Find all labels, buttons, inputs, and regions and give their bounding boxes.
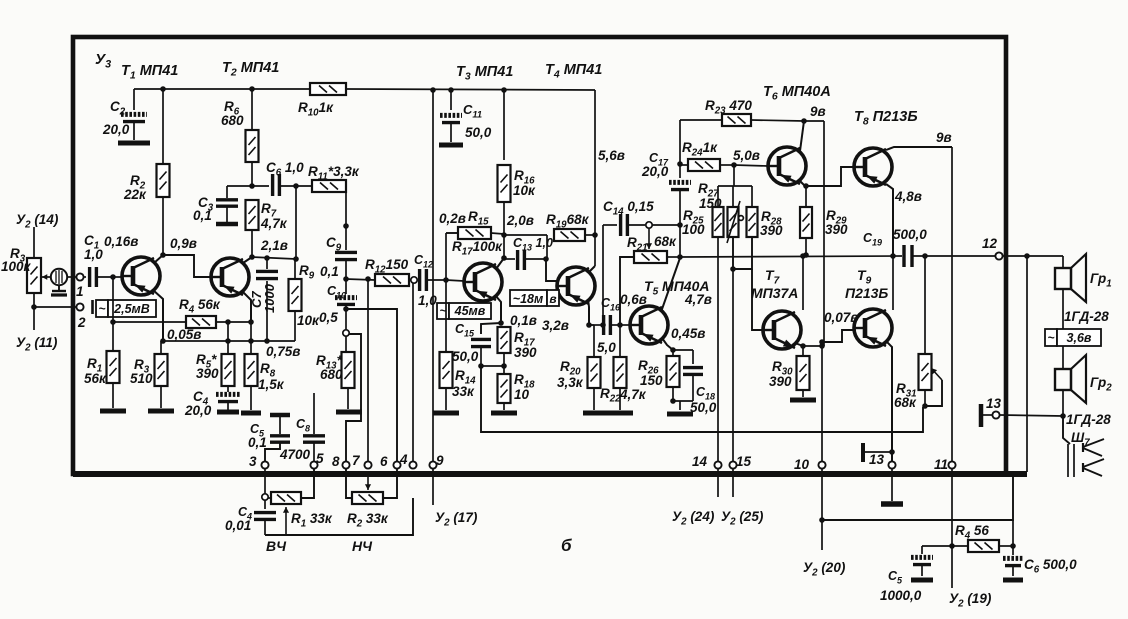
capacitor C2 (133, 89, 135, 110)
transistor T8 P213B (854, 148, 892, 186)
svg-text:У2 (17): У2 (17) (435, 510, 478, 529)
potentiometer R21 (634, 251, 667, 263)
wire T5 collector (661, 258, 680, 312)
svg-text:68к: 68к (654, 234, 677, 249)
node C13 right (543, 256, 549, 262)
wire node to C13 (504, 234, 547, 236)
svg-text:С10: С10 (327, 284, 346, 301)
svg-text:С6 500,0: С6 500,0 (1024, 557, 1077, 576)
svg-text:~: ~ (1047, 331, 1054, 345)
node T1 base (110, 274, 116, 280)
wire Gr2 bottom (1062, 390, 1064, 416)
bias bank top bus (718, 185, 752, 187)
svg-text:0,5: 0,5 (319, 310, 338, 325)
svg-text:0,45в: 0,45в (671, 326, 705, 341)
speaker return wire (1026, 256, 1028, 472)
terminal 13 right (992, 411, 999, 418)
capacitor C10 (345, 279, 347, 294)
wire terminal 4 riser (412, 283, 414, 461)
svg-text:R1968к: R1968к (546, 212, 590, 231)
svg-text:У3: У3 (95, 51, 111, 71)
speaker Gr1 (1062, 256, 1064, 268)
svg-text:4700: 4700 (279, 447, 311, 462)
svg-text:14: 14 (692, 454, 708, 469)
resistor R5* (227, 322, 229, 354)
svg-text:Т2 МП41: Т2 МП41 (222, 60, 279, 79)
wire to T5 base (620, 324, 630, 326)
svg-text:в: в (549, 292, 556, 306)
svg-text:680: 680 (221, 113, 244, 128)
svg-text:0,1: 0,1 (193, 208, 212, 223)
resistor R14 33k (445, 280, 447, 352)
node R19 right (592, 232, 598, 238)
wire T2 collector line (252, 257, 296, 259)
resistor R22 (619, 325, 621, 345)
chassis bar 13 inside (861, 443, 865, 462)
node emitter bus T1 (160, 338, 166, 344)
svg-text:Т6 МП40А: Т6 МП40А (763, 84, 831, 103)
capacitor C9 (335, 251, 357, 254)
svg-text:0,2в: 0,2в (439, 211, 466, 226)
svg-text:13: 13 (869, 452, 885, 467)
wire T6 emitter to T8 base (805, 167, 854, 186)
wire T6 collector (800, 121, 804, 151)
wire mic to terminal 1 (67, 276, 77, 278)
wire T9 collector (892, 256, 894, 310)
wire R3 bottom to Y2(11) (33, 293, 35, 330)
transistor T9 P213B (854, 309, 892, 347)
wire terminal 14 stub (717, 469, 719, 497)
node rail C11 (448, 87, 454, 93)
wire T3 collector (496, 258, 504, 269)
bottom bus thick edge (73, 471, 1027, 477)
tap circle R12-C12 (409, 279, 411, 281)
potentiometer R31 68k (924, 256, 926, 354)
capacitor C5 1000,0 (921, 546, 923, 554)
wire top rail right (346, 89, 595, 90)
svg-text:390: 390 (514, 345, 537, 360)
node R4 right (1010, 543, 1016, 549)
node R24 right (731, 162, 737, 168)
svg-text:1ГД-28: 1ГД-28 (1064, 309, 1109, 324)
node R27-R28 bottoms (733, 237, 752, 269)
node T6 collector (801, 118, 807, 124)
svg-text:0,6в: 0,6в (620, 292, 647, 307)
resistor R8 (250, 322, 252, 354)
wire T9 emitter to terminal 13 (886, 341, 892, 461)
svg-text:У2 (14): У2 (14) (16, 212, 59, 231)
node R24 left (677, 161, 683, 167)
transistor T4 (557, 267, 595, 305)
svg-text:0,1в: 0,1в (510, 313, 537, 328)
svg-text:С11: С11 (463, 102, 482, 120)
svg-text:С15: С15 (455, 322, 475, 339)
wire terminal 13 to speakers (1000, 415, 1063, 416)
svg-text:4: 4 (399, 452, 408, 467)
wire output to speakers (1002, 255, 1063, 257)
wire top rail left (134, 88, 310, 90)
transistor T3 (464, 263, 502, 301)
svg-text:Т7: Т7 (765, 267, 780, 287)
svg-text:0,16в: 0,16в (104, 234, 138, 249)
svg-text:Т1 МП41: Т1 МП41 (121, 63, 178, 82)
svg-text:510: 510 (130, 371, 153, 386)
node R29 bottom rail (803, 252, 809, 258)
svg-text:С5: С5 (888, 569, 903, 586)
node C18 bottom (670, 398, 676, 404)
capacitor C17 (679, 164, 681, 178)
resistor R15 (446, 232, 458, 234)
fork plug upper (1082, 443, 1084, 452)
svg-text:С12: С12 (414, 253, 433, 270)
enclosure box У3 (73, 37, 1006, 474)
wire T1 emitter (153, 290, 163, 341)
R21 wiper arrow (648, 228, 650, 249)
capacitor C5 0,1 (270, 413, 290, 418)
wire R24 to T6 base (734, 165, 768, 166)
supply rail to x824 (804, 120, 824, 122)
svg-text:1000,0: 1000,0 (880, 588, 922, 603)
svg-text:10к: 10к (513, 183, 536, 198)
svg-text:9в: 9в (810, 104, 826, 119)
svg-text:0,9в: 0,9в (170, 236, 197, 251)
capacitor C6 (252, 185, 269, 187)
wire terminal 9 stub (432, 469, 434, 505)
svg-text:0,01: 0,01 (225, 518, 251, 533)
resistor R4 56 (922, 545, 968, 547)
svg-text:2,5мВ: 2,5мВ (113, 302, 150, 316)
capacitor C16 (602, 315, 605, 335)
wire T8 emitter (886, 184, 893, 256)
svg-text:4,7к: 4,7к (260, 216, 288, 231)
terminal 5 (310, 461, 317, 468)
wire Gr1 to Gr2 (1062, 289, 1064, 369)
mid output rail (680, 256, 902, 257)
resistor R4 56k (113, 321, 186, 323)
wire to T4 base (546, 259, 557, 281)
wire T2 emitter (242, 291, 251, 322)
svg-text:3: 3 (249, 454, 257, 469)
svg-text:390: 390 (196, 366, 219, 381)
wire terminal 15 stub (732, 469, 734, 497)
svg-text:R21: R21 (627, 235, 648, 254)
node R17-R18 (501, 363, 507, 369)
node T7 emitter (800, 343, 806, 349)
capacitor C12 (417, 279, 418, 281)
node Gr2 bottom (1060, 413, 1066, 419)
node R3 tap (31, 304, 37, 310)
node R16 bottom (501, 232, 507, 238)
svg-text:68к: 68к (894, 395, 917, 410)
svg-text:15: 15 (736, 454, 752, 469)
transistor T2 (211, 258, 249, 296)
resistor R11* (312, 180, 346, 192)
svg-text:У2 (19): У2 (19) (949, 591, 992, 610)
chassis below terminal 13 (891, 469, 893, 501)
svg-text:~18м: ~18м (513, 292, 543, 306)
capacitor C7 (266, 258, 268, 269)
svg-text:4,7в: 4,7в (684, 292, 712, 307)
wire R23 left riser (679, 120, 681, 164)
resistor R10 (310, 83, 346, 95)
wire R15 left down (445, 233, 447, 280)
svg-text:Т3 МП41: Т3 МП41 (456, 64, 513, 83)
svg-text:МП37А: МП37А (751, 285, 798, 301)
node bus crossings (225, 338, 231, 344)
supply riser to terminal 9 (432, 90, 434, 461)
measure box 45mV (437, 303, 449, 319)
svg-text:20,0: 20,0 (102, 122, 130, 137)
node rail T3 supply (430, 87, 436, 93)
svg-text:1000: 1000 (262, 283, 277, 313)
svg-text:1,5к: 1,5к (258, 377, 285, 392)
capacitor C11 (450, 90, 452, 110)
wire terminal 11 down (951, 469, 953, 588)
wire to terminal 2 (34, 306, 77, 308)
resistor R26 (672, 350, 674, 356)
svg-text:~: ~ (98, 302, 105, 316)
wire base node to T1 (113, 276, 122, 278)
measure box 3,6v (1045, 329, 1057, 346)
potentiometer R1 33k ВЧ (268, 497, 271, 499)
wire tap to terminal 8 (346, 334, 361, 461)
wire R11 to C9 (345, 186, 347, 250)
capacitor C8 4700 (313, 393, 315, 434)
node R21 right (677, 254, 683, 260)
svg-text:13: 13 (986, 396, 1002, 411)
svg-text:9в: 9в (936, 130, 952, 145)
svg-text:3,2в: 3,2в (542, 318, 569, 333)
svg-text:ВЧ: ВЧ (266, 538, 287, 554)
wire T4 emitter (588, 299, 589, 325)
svg-text:4,7к: 4,7к (619, 387, 647, 402)
node output T8-T9 (890, 253, 896, 259)
capacitor C13 (504, 258, 515, 260)
svg-text:390: 390 (769, 374, 792, 389)
resistor R17 390 (498, 327, 511, 353)
wire T5 emitter (662, 338, 673, 350)
transistor T5 (630, 306, 668, 344)
node C14 tap (600, 322, 606, 328)
wire R21 left to T5 base (620, 257, 634, 325)
node R5 top (225, 319, 231, 325)
node R9 top (293, 256, 299, 262)
svg-text:50,0: 50,0 (690, 400, 717, 415)
svg-text:50,0: 50,0 (452, 349, 479, 364)
node C17 bottom (677, 222, 683, 228)
svg-text:Т9: Т9 (857, 267, 872, 287)
terminal 6 (393, 461, 400, 468)
svg-text:С8: С8 (296, 417, 310, 434)
svg-text:0,75в: 0,75в (266, 344, 300, 359)
svg-text:2,1в: 2,1в (260, 238, 288, 253)
svg-text:R241к: R241к (682, 140, 718, 159)
resistor R12 (346, 279, 375, 280)
svg-text:3,3к: 3,3к (557, 375, 584, 390)
resistor R28 390 (751, 186, 753, 207)
capacitor C6 500,0 (1012, 546, 1014, 555)
svg-text:20,0: 20,0 (184, 403, 212, 418)
emitter bus 0,75v (162, 340, 295, 342)
node T5 emitter (670, 347, 676, 353)
wire C12 to T3 base (446, 280, 464, 281)
svg-text:8: 8 (332, 454, 340, 469)
svg-text:П213Б: П213Б (845, 285, 888, 301)
svg-text:20,0: 20,0 (641, 164, 669, 179)
terminal 2 (76, 303, 83, 310)
wire terminal 10 stub (821, 469, 823, 550)
fork plug lower (1082, 463, 1084, 472)
capacitor C4 20,0 (227, 386, 229, 392)
svg-text:У2 (25): У2 (25) (721, 509, 764, 528)
terminal 11 (948, 461, 955, 468)
node C9 bottom (343, 276, 349, 282)
supply riser terminal 11 (951, 147, 953, 461)
svg-text:R4 56к: R4 56к (179, 297, 221, 316)
transistor T7 MP37A (763, 311, 801, 349)
node R6 bottom (249, 183, 255, 189)
svg-text:500,0: 500,0 (893, 227, 927, 242)
svg-text:1,0: 1,0 (84, 247, 103, 262)
svg-text:150: 150 (640, 373, 663, 388)
svg-text:1,0: 1,0 (418, 293, 437, 308)
svg-text:R2 33к: R2 33к (347, 511, 389, 530)
thermistor R27 150 (732, 186, 734, 207)
svg-text:Гр1: Гр1 (1090, 271, 1112, 290)
svg-text:НЧ: НЧ (352, 538, 373, 554)
resistor R20 (589, 324, 594, 326)
node T3 base (443, 277, 449, 283)
wire T3 emitter (495, 295, 501, 323)
supply riser terminal 10 (823, 121, 825, 346)
node speaker return (1024, 253, 1030, 259)
resistor R7 (246, 200, 259, 230)
svg-text:680: 680 (320, 367, 343, 382)
svg-text:56к: 56к (84, 371, 107, 386)
resistor R3 510 (160, 341, 162, 354)
resistor R1 56k (112, 277, 114, 351)
tap circle R13 top (343, 330, 349, 336)
potentiometer R2 33k НЧ (346, 469, 352, 498)
resistor R16 (503, 90, 505, 160)
resistor R25 100 (717, 186, 719, 207)
potentiometer R3 100k (27, 258, 41, 293)
svg-text:5,0: 5,0 (597, 340, 616, 355)
svg-text:6: 6 (380, 454, 388, 469)
capacitor C14 riser (602, 225, 604, 325)
wire T2 collector (243, 257, 252, 263)
node T3 emitter (498, 320, 504, 326)
svg-text:22к: 22к (123, 187, 147, 202)
chassis bar right 13 (979, 404, 984, 427)
resistor R6 (251, 89, 253, 130)
svg-text:У2 (20): У2 (20) (803, 560, 846, 579)
svg-text:С19: С19 (863, 231, 882, 248)
svg-text:5,0в: 5,0в (733, 148, 760, 163)
svg-text:3,6в: 3,6в (1067, 331, 1092, 345)
node rail R2 (160, 86, 166, 92)
svg-text:У2 (11): У2 (11) (16, 335, 58, 354)
terminal 7 (364, 461, 371, 468)
resistor R29 (805, 186, 807, 207)
capacitor C1 (83, 276, 86, 278)
svg-text:50,0: 50,0 (465, 125, 492, 140)
wire terminal 3 to R1 left (264, 469, 266, 494)
capacitor C3 (227, 185, 252, 187)
wire node to T7 base (752, 269, 763, 330)
resistor R19 68k (554, 229, 585, 241)
svg-text:10к: 10к (297, 313, 320, 328)
node rail R16 (501, 87, 507, 93)
resistor R13* (345, 336, 347, 352)
wire R21 right (667, 256, 680, 258)
capacitor C18 (673, 349, 693, 351)
wire T7 emitter (795, 343, 803, 346)
svg-text:2: 2 (77, 315, 86, 330)
wire T9 base (822, 330, 854, 342)
terminal 15 (729, 461, 736, 468)
feedback wire from R31 (481, 366, 923, 432)
wire T7 collector (802, 256, 804, 310)
terminal 13 (888, 461, 895, 468)
svg-text:R4 56: R4 56 (955, 523, 989, 542)
resistor R30 (802, 346, 804, 356)
svg-text:7: 7 (352, 453, 361, 468)
svg-text:4,8в: 4,8в (894, 189, 922, 204)
node T5 base (617, 322, 623, 328)
resistor R23 470 (680, 119, 722, 121)
svg-text:б: б (561, 536, 572, 555)
measure box 18mV (510, 290, 547, 306)
terminal 14 (714, 461, 721, 468)
svg-text:R15: R15 (468, 209, 489, 228)
svg-text:390: 390 (825, 222, 848, 237)
resistor R24 1k (688, 159, 720, 171)
microphone symbol (42, 276, 51, 278)
svg-text:390: 390 (760, 223, 783, 238)
svg-text:R17100к: R17100к (452, 239, 503, 258)
speaker Gr2 (1055, 369, 1071, 390)
svg-text:1: 1 (76, 284, 84, 299)
node C10 bottom (343, 306, 349, 312)
wire T1 collector (154, 255, 163, 263)
resistor R2 (162, 89, 164, 164)
svg-text:R1 33к: R1 33к (291, 511, 333, 530)
resistor R9 (289, 279, 302, 311)
transistor T6 (768, 147, 806, 185)
svg-text:Т8 П213Б: Т8 П213Б (854, 109, 918, 128)
node R8 top (248, 319, 254, 325)
node C15 bottom (478, 363, 484, 369)
bottom tone wire (265, 498, 413, 535)
svg-text:0,05в: 0,05в (167, 327, 201, 342)
node C6-R11 (293, 183, 299, 189)
svg-text:9: 9 (436, 453, 444, 468)
capacitor C14 (619, 214, 622, 236)
svg-text:0,07в: 0,07в (824, 310, 858, 325)
svg-text:150: 150 (699, 196, 722, 211)
capacitor C4 0,01 (264, 500, 266, 509)
node rail R6 (249, 86, 255, 92)
wire T8 collector (886, 147, 952, 150)
terminal 9 (429, 461, 436, 468)
node R31 top (922, 253, 928, 259)
output rail to terminal 12 (912, 255, 996, 257)
node T4 emitter (586, 322, 592, 328)
svg-text:33к: 33к (452, 384, 475, 399)
transistor T1 (122, 257, 160, 295)
terminal 8 (342, 461, 349, 468)
